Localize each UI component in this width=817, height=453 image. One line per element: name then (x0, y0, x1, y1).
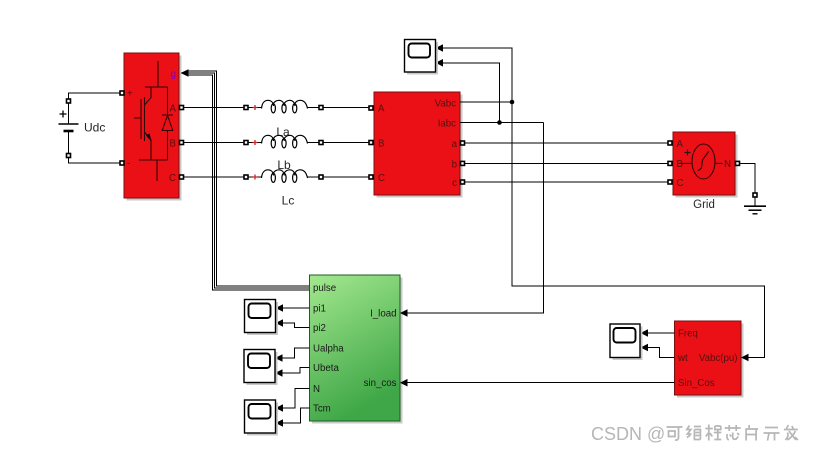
inductor Lc (244, 170, 323, 208)
svg-text:pi2: pi2 (313, 323, 326, 334)
svg-text:A: A (170, 104, 177, 115)
ground (744, 206, 766, 214)
wire Vabc output (460, 101, 512, 103)
wire pi1 to scope2 (276, 304, 310, 312)
svg-text:N: N (313, 384, 320, 395)
Grid source block (668, 132, 740, 211)
svg-text:I_load: I_load (370, 309, 396, 320)
wire Tcm to scope4 (276, 408, 310, 427)
svg-text:B: B (677, 159, 683, 170)
wire Ualpha to scope3 (275, 348, 310, 362)
wire Lc to measurement C (324, 176, 369, 178)
wire Freq to scope5 (641, 329, 675, 337)
svg-text:g: g (170, 69, 176, 80)
three-phase VI measurement block (369, 92, 465, 198)
wire N to scope4 (276, 389, 310, 412)
wire Lb to measurement B (324, 142, 369, 144)
svg-text:sin_cos: sin_cos (364, 378, 397, 389)
bridge IGBT-diode icon (134, 61, 173, 181)
svg-text:B: B (170, 139, 176, 150)
wire bridge B to Lb (184, 142, 244, 144)
inductor La (244, 100, 323, 139)
svg-text:c: c (452, 178, 457, 189)
watermark (591, 424, 798, 444)
svg-text:Iabc: Iabc (438, 119, 456, 130)
wire Udc plus to bridge (69, 93, 120, 99)
svg-text:Tcm: Tcm (313, 403, 331, 414)
svg-text:B: B (378, 139, 384, 150)
svg-text:CSDN @: CSDN @ (591, 424, 665, 444)
controller subsystem (green) (310, 275, 403, 424)
wire Grid N to ground (740, 163, 757, 206)
node Vabc junction (510, 100, 515, 105)
svg-text:C: C (169, 173, 176, 184)
svg-text:Lc: Lc (282, 194, 295, 208)
wire Sin_Cos to green sin_cos input (400, 379, 675, 387)
wire Vabc to PLL input (512, 102, 765, 358)
svg-text:Sin_Cos: Sin_Cos (678, 378, 715, 389)
pulse arrow into bridge g (181, 69, 189, 76)
svg-text:-: - (127, 159, 130, 170)
svg-text:A: A (378, 104, 385, 115)
svg-text:pulse: pulse (313, 283, 336, 294)
wire phase b to Grid (465, 162, 668, 164)
svg-text:Freq: Freq (678, 329, 698, 340)
scope1 (Vabc/Iabc scope) (405, 40, 439, 75)
universal bridge U1 (120, 53, 184, 201)
wire Iabc to I_load input (400, 123, 544, 317)
svg-text:Vabc(pu): Vabc(pu) (699, 353, 738, 364)
PLL block (675, 321, 744, 398)
svg-text:wt: wt (677, 353, 688, 364)
svg-text:+: + (127, 89, 133, 100)
wire pulse bundle (3 lines) (188, 71, 310, 290)
svg-text:N: N (724, 159, 731, 170)
wire phase c to Grid (465, 181, 668, 183)
svg-text:C: C (378, 173, 385, 184)
inductor Lb (244, 135, 323, 172)
svg-text:C: C (677, 178, 684, 189)
svg-text:Ualpha: Ualpha (313, 343, 344, 354)
svg-text:A: A (677, 139, 684, 150)
wire Vabc to scope1 input1 (436, 44, 513, 102)
svg-text:a: a (452, 139, 458, 150)
wire bridge C to Lc (184, 176, 244, 178)
wire Ubeta to scope3 (275, 368, 310, 377)
svg-text:pi1: pi1 (313, 303, 326, 314)
scope5 (610, 324, 643, 360)
svg-text:Ubeta: Ubeta (313, 363, 339, 374)
scope2 (245, 300, 279, 336)
wire pi2 to scope2 (276, 319, 310, 327)
wire bridge A to La (184, 107, 244, 109)
scope3 (244, 350, 278, 386)
wire Iabc to scope1 input2 (436, 59, 500, 123)
node Iabc junction (497, 120, 502, 125)
wire wt to scope5 (641, 344, 675, 358)
svg-text:Grid: Grid (693, 199, 715, 211)
scope4 (245, 400, 279, 436)
wire Udc minus to bridge (69, 158, 120, 163)
wire Iabc output (460, 122, 544, 124)
svg-text:Vabc: Vabc (435, 99, 457, 110)
wire phase a to Grid (465, 142, 668, 144)
wire La to measurement A (324, 107, 369, 109)
arrow into PLL Vabc(pu) (741, 354, 749, 362)
svg-text:Udc: Udc (84, 121, 105, 135)
svg-text:b: b (452, 159, 457, 170)
dc source Udc (59, 99, 106, 158)
